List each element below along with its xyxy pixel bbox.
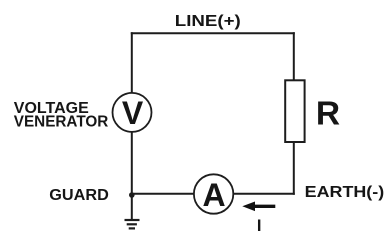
svg-text:EARTH(-): EARTH(-) <box>305 184 385 201</box>
ground symbol bar 2 <box>127 223 137 225</box>
svg-text:VENERATOR: VENERATOR <box>14 113 109 130</box>
svg-text:V: V <box>122 95 144 131</box>
wire top: LINE(+) rail <box>131 32 295 34</box>
resistor R (body) <box>285 80 304 142</box>
wire bottom right: ammeter to earth corner <box>233 193 295 195</box>
wire bottom left: guard node to ammeter <box>132 193 195 195</box>
node GUARD junction dot <box>129 192 135 198</box>
wire left lower: voltmeter to guard node <box>131 132 133 195</box>
ground symbol bar 3 <box>129 227 135 229</box>
svg-text:GUARD: GUARD <box>49 187 108 204</box>
ground symbol bar 1 <box>125 219 140 221</box>
svg-text:R: R <box>316 95 340 132</box>
svg-text:LINE(+): LINE(+) <box>175 13 241 30</box>
current arrow I (shaft) <box>254 205 276 208</box>
wire right lower: resistor to bottom rail <box>293 142 295 195</box>
svg-text:A: A <box>203 177 226 213</box>
voltmeter V (circle) <box>113 93 152 132</box>
wire left upper: top rail to voltmeter <box>131 32 133 93</box>
svg-text:I: I <box>257 217 262 234</box>
ground symbol stem <box>131 195 133 219</box>
ammeter A (circle) <box>194 174 233 213</box>
wire right upper: top rail to resistor <box>293 32 295 80</box>
current arrow I (head) <box>242 202 255 212</box>
